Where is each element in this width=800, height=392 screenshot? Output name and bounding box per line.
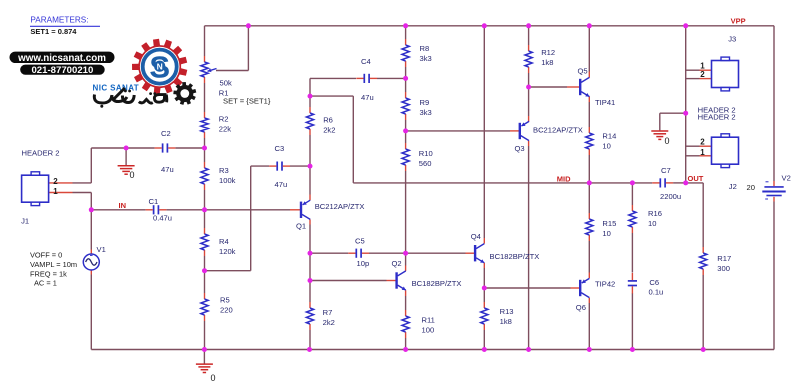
svg-text:R6: R6 [323, 115, 333, 124]
svg-text:C3: C3 [275, 144, 285, 153]
wire Q1 emitter segment [309, 166, 311, 200]
connector J1 HEADER 2 [21, 148, 59, 225]
svg-text:HEADER 2: HEADER 2 [698, 113, 736, 122]
logo blue ring [143, 50, 177, 84]
wire VPP top rail [205, 25, 775, 27]
wire R15 to Q6 emitter [588, 241, 590, 278]
svg-text:MID: MID [557, 174, 571, 183]
svg-text:J2: J2 [729, 182, 737, 191]
wire C3 left to feedback column [251, 165, 270, 167]
wire J2 pin2 stub [686, 145, 712, 147]
net label MID [557, 174, 571, 183]
svg-text:IN: IN [119, 201, 127, 210]
svg-text:3k3: 3k3 [420, 108, 432, 117]
wire R14 to MID [588, 155, 590, 183]
svg-text:1: 1 [700, 148, 705, 157]
svg-text:R4: R4 [219, 237, 229, 246]
wire Q2 collector segment [405, 253, 407, 271]
logo pill www.nicsanat.com [10, 52, 115, 64]
resistor R5 220 [201, 293, 233, 321]
wire bottom ground rail [91, 349, 774, 351]
wire MID to R16 [631, 183, 633, 205]
svg-text:R16: R16 [648, 209, 662, 218]
wire bootstrap horizontal [310, 95, 353, 97]
wire R1 column top [204, 26, 206, 56]
capacitor C2 47u [155, 129, 176, 174]
wire R6 top segment [309, 96, 311, 107]
svg-text:1: 1 [53, 187, 58, 196]
wire feedback column [250, 166, 252, 271]
svg-text:R3: R3 [219, 166, 229, 175]
resistor R10 560 [402, 143, 433, 171]
wire J2 pin1 stub [686, 155, 712, 157]
wire MID line [353, 182, 652, 184]
ground 0 near C2 [118, 148, 135, 180]
wire R9-R10 node [405, 120, 407, 131]
svg-text:SET1 = 0.874: SET1 = 0.874 [30, 27, 77, 36]
svg-text:BC212AP/ZTX: BC212AP/ZTX [533, 126, 583, 135]
svg-text:VOFF = 0: VOFF = 0 [30, 250, 62, 259]
svg-text:R11: R11 [422, 316, 435, 325]
resistor R12 1k8 [525, 45, 555, 73]
logo black gear fragment [173, 82, 196, 105]
svg-text:C1: C1 [149, 197, 159, 206]
svg-text:BC212AP/ZTX: BC212AP/ZTX [315, 202, 365, 211]
net label VPP [731, 17, 746, 26]
svg-text:OUT: OUT [688, 174, 704, 183]
resistor R17 300 [700, 247, 732, 275]
ground 0 near J3 [651, 113, 669, 146]
wire IN line right [166, 209, 290, 211]
svg-text:Q3: Q3 [515, 144, 525, 153]
capacitor C5 10p [348, 237, 369, 268]
svg-text:47u: 47u [361, 93, 374, 102]
logo persian script nik sanat [94, 88, 166, 108]
svg-text:PARAMETERS:: PARAMETERS: [30, 16, 88, 25]
svg-text:220: 220 [220, 306, 233, 315]
wire J1 pin2 riser [91, 148, 154, 183]
svg-text:R5: R5 [220, 296, 230, 305]
transistor Q6 TIP42 PNP [576, 278, 615, 311]
wire gnd node to J2 [685, 113, 687, 183]
wire Q3 collector to rail [528, 141, 530, 350]
svg-text:BC182BP/ZTX: BC182BP/ZTX [490, 252, 540, 261]
wire C4node-R9 [405, 78, 407, 92]
logo NIC SANAT text [93, 84, 140, 93]
logo pill 021-87700210 [20, 65, 105, 77]
svg-text:2: 2 [700, 70, 705, 79]
svg-text:C6: C6 [649, 278, 659, 287]
wire VPP to R8 [405, 26, 407, 39]
resistor R15 10 [586, 213, 617, 241]
wire V1 bottom [90, 270, 92, 350]
resistor R13 1k8 [481, 302, 514, 330]
text parameters block [30, 16, 100, 36]
svg-text:TIP42: TIP42 [595, 280, 615, 289]
svg-text:C4: C4 [361, 57, 371, 66]
capacitor C4 47u [356, 57, 377, 102]
wire C5 line left [310, 252, 348, 254]
svg-text:J1: J1 [21, 217, 29, 226]
wire Q4 base line [406, 252, 475, 254]
svg-text:22k: 22k [219, 125, 231, 134]
svg-text:10: 10 [602, 229, 610, 238]
resistor R6 2k2 [306, 107, 335, 135]
svg-text:NIC SANAT: NIC SANAT [93, 84, 140, 93]
wire C2node-R3 segment [204, 148, 206, 162]
wire IN line left [91, 209, 145, 211]
resistor R4 120k [201, 228, 236, 256]
svg-text:10: 10 [648, 219, 656, 228]
wire Q4 emitter to node [483, 263, 485, 288]
svg-text:Q5: Q5 [578, 67, 588, 76]
wire MID to R15 [588, 183, 590, 213]
svg-text:Q1: Q1 [296, 221, 306, 230]
wire J3 pin2 stub [686, 78, 712, 80]
resistor R11 100 [402, 310, 435, 338]
svg-text:50k: 50k [220, 79, 232, 88]
capacitor C1 0.47u [146, 197, 172, 222]
svg-text:R12: R12 [541, 48, 555, 57]
wire R2-C2node segment [204, 138, 206, 148]
connector J3 HEADER 2 [698, 35, 739, 122]
svg-text:560: 560 [419, 159, 432, 168]
wire Q3 emitter segment [528, 87, 530, 122]
svg-text:2k2: 2k2 [323, 126, 335, 135]
svg-text:TIP41: TIP41 [595, 98, 615, 107]
svg-text:C7: C7 [661, 166, 671, 175]
wire VPP to J3 [685, 26, 687, 113]
svg-text:V1: V1 [97, 245, 106, 254]
svg-text:10p: 10p [357, 259, 370, 268]
wire R16 to C6 [631, 233, 633, 273]
resistor R9 3k3 [402, 92, 432, 120]
svg-text:100: 100 [422, 326, 435, 335]
svg-text:J3: J3 [728, 35, 736, 44]
transistor Q4 BC182BP NPN [471, 232, 540, 263]
svg-text:www.nicsanat.com: www.nicsanat.com [17, 53, 106, 64]
wire Q1C-Q2base segment [309, 253, 311, 280]
wire R1-R2 segment [204, 83, 206, 112]
wire MID to OUT [673, 182, 686, 184]
wire C4 line right [377, 77, 406, 79]
svg-text:300: 300 [717, 264, 730, 273]
svg-text:3k3: 3k3 [420, 54, 432, 63]
resistor R2 22k [201, 112, 231, 138]
wire J1 pin2 lead [48, 182, 91, 184]
wire R13 top segment [483, 288, 485, 302]
wire Q6 base line [484, 287, 579, 289]
capacitor C6 0.1u [628, 273, 663, 297]
wire right rail to V2 [773, 26, 775, 181]
source V2 battery 20V [747, 173, 791, 201]
svg-text:2k2: 2k2 [323, 318, 335, 327]
svg-text:C5: C5 [355, 237, 365, 246]
wire Q6 collector to rail [588, 298, 590, 350]
wire R9R10 node to Q3 base [406, 130, 520, 132]
resistor R7 2k2 [306, 302, 334, 330]
svg-text:R2: R2 [219, 114, 229, 123]
svg-text:20: 20 [747, 183, 755, 192]
wire IN-R4 segment [204, 210, 206, 228]
wire J3 pin1 stub [686, 69, 712, 71]
wire C2 to R2R3 node [175, 147, 204, 149]
wire C3 right to Q1 emitter column [290, 165, 310, 167]
wire V2 to bottom rail [773, 202, 775, 350]
svg-text:2200u: 2200u [660, 192, 681, 201]
svg-text:47u: 47u [275, 180, 288, 189]
svg-text:0.1u: 0.1u [649, 288, 664, 297]
transistor Q2 BC182BP NPN [392, 259, 462, 290]
capacitor C7 2200u [652, 166, 681, 201]
svg-text:Q2: Q2 [392, 259, 402, 268]
logo S monogram [149, 50, 170, 85]
wire V1 top [90, 210, 92, 254]
wire R10 top segment [405, 131, 407, 143]
svg-text:C2: C2 [161, 129, 171, 138]
svg-text:AC = 1: AC = 1 [34, 278, 57, 287]
svg-text:VAMPL = 10m: VAMPL = 10m [30, 260, 77, 269]
svg-text:10: 10 [602, 142, 610, 151]
wire gnd stub J3 [660, 112, 686, 114]
wire bootstrap vertical [352, 96, 354, 183]
svg-text:R10: R10 [419, 149, 433, 158]
wire R10 bottom long segment [405, 171, 407, 253]
wire R4-FBnode segment [204, 256, 206, 271]
wire VPP to R12 [528, 26, 530, 45]
wire R12 to node [528, 73, 530, 87]
wire Q2 base line [310, 280, 396, 282]
svg-text:1k8: 1k8 [541, 58, 553, 67]
resistor R1 potentiometer 50k [201, 56, 271, 105]
svg-text:0: 0 [665, 136, 670, 146]
svg-text:SET = {SET1}: SET = {SET1} [223, 96, 271, 105]
source V1 sine [30, 245, 106, 287]
wire J1 pin1 lead [48, 193, 91, 210]
transistor Q5 TIP41 NPN [578, 67, 616, 108]
wire C4 line left [310, 77, 356, 79]
wire C5 line right [369, 252, 406, 254]
wire R17 to rail [702, 275, 704, 350]
svg-text:R9: R9 [420, 98, 430, 107]
svg-text:R14: R14 [602, 131, 616, 140]
wire Q5 emitter to R14 [588, 96, 590, 127]
wire feedback to R4R5 node [205, 270, 251, 272]
wire R7 top segment [309, 281, 311, 303]
resistor R3 100k [201, 162, 236, 190]
svg-text:V2: V2 [782, 173, 791, 182]
svg-text:021-87700210: 021-87700210 [31, 65, 93, 76]
wire OUT to R17 corner [686, 183, 704, 247]
svg-text:2: 2 [700, 138, 705, 147]
wire R1 wiper to VPP [216, 26, 248, 71]
net label OUT [688, 174, 704, 183]
wire R11 to rail [405, 338, 407, 350]
svg-text:Q4: Q4 [471, 232, 481, 241]
svg-text:VPP: VPP [731, 17, 746, 26]
svg-text:47u: 47u [161, 165, 174, 174]
svg-text:R17: R17 [717, 254, 731, 263]
wire VPP to Q5 collector [588, 26, 590, 78]
svg-text:N: N [157, 61, 163, 71]
svg-text:0: 0 [130, 170, 135, 180]
wire C6 to rail [631, 293, 633, 349]
wire Q1 collector segment [309, 219, 311, 253]
svg-text:R15: R15 [602, 219, 616, 228]
svg-text:Q6: Q6 [576, 303, 586, 312]
logo red gear [132, 39, 187, 95]
net label IN [119, 201, 127, 210]
wire R5-rail segment [204, 321, 206, 350]
svg-text:1k8: 1k8 [500, 317, 512, 326]
svg-text:HEADER 2: HEADER 2 [22, 148, 60, 157]
wire VPP to Q4 collector [483, 26, 485, 244]
wire R8-C4 node [405, 67, 407, 78]
svg-text:0.47u: 0.47u [153, 213, 172, 222]
wire Q5 base line [529, 86, 580, 88]
svg-text:0: 0 [211, 373, 216, 383]
svg-text:R13: R13 [500, 307, 514, 316]
resistor R14 10 [586, 127, 617, 155]
svg-text:BC182BP/ZTX: BC182BP/ZTX [412, 279, 462, 288]
wire R3-IN segment [204, 190, 206, 210]
ground 0 bottom rail [196, 350, 216, 384]
transistor Q1 BC212AP PNP [296, 200, 365, 230]
svg-text:120k: 120k [219, 247, 236, 256]
wire R6 bottom segment [309, 135, 311, 166]
svg-text:100k: 100k [219, 176, 236, 185]
transistor Q3 BC212AP PNP [515, 121, 583, 153]
wire FBnode-R5 segment [204, 271, 206, 293]
wire Q1 base lead [290, 209, 300, 211]
wire R13 bottom segment [483, 330, 485, 350]
svg-text:R8: R8 [420, 44, 430, 53]
svg-text:2: 2 [53, 177, 58, 186]
wire C4 corner down [309, 78, 311, 96]
resistor R8 3k3 [402, 39, 432, 67]
svg-text:FREQ = 1k: FREQ = 1k [30, 269, 67, 278]
connector J2 HEADER 2 [700, 134, 738, 191]
svg-text:R7: R7 [323, 308, 333, 317]
resistor R16 10 [629, 205, 662, 233]
wire Q2 emitter to R11 [405, 290, 407, 310]
capacitor C3 47u [269, 144, 290, 189]
wire R7 bottom segment [309, 330, 311, 350]
